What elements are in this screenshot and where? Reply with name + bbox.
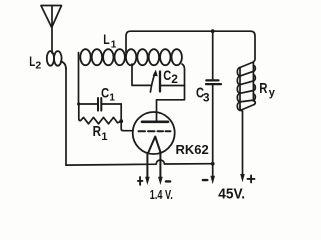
tube plate bar xyxy=(142,121,168,124)
svg-text:45V.: 45V. xyxy=(218,185,245,202)
tube filament xyxy=(147,137,160,181)
antenna xyxy=(41,6,62,54)
svg-text:L: L xyxy=(29,54,35,69)
R1 label xyxy=(93,124,108,143)
node grid junction xyxy=(119,119,123,123)
label + (45V) xyxy=(248,176,255,183)
tube RK62 envelope xyxy=(133,112,175,154)
wire relay bottom to +45 terminal xyxy=(240,107,243,176)
node top bus / C3 xyxy=(211,29,215,33)
relay coil Ry xyxy=(237,62,255,111)
tube grid (dashed) xyxy=(139,130,171,132)
C2 label xyxy=(163,67,178,86)
wire C3 bottom to B- node xyxy=(212,85,214,164)
wire B- terminal xyxy=(212,164,214,177)
svg-text:1: 1 xyxy=(101,131,107,143)
wire L1 left end down to C1 node xyxy=(78,53,80,105)
resistor R1 xyxy=(79,103,121,124)
C3 label xyxy=(196,85,210,105)
filament arrow - xyxy=(158,177,163,185)
svg-text:2: 2 xyxy=(35,59,41,71)
svg-text:y: y xyxy=(269,87,276,99)
node B- junction xyxy=(211,162,215,166)
capacitor C3 xyxy=(206,80,221,84)
svg-text:1.4 V.: 1.4 V. xyxy=(150,188,173,202)
svg-text:1: 1 xyxy=(109,93,115,104)
coil L2 xyxy=(47,51,66,69)
C1 label xyxy=(101,84,115,103)
svg-text:3: 3 xyxy=(203,91,210,105)
svg-text:R: R xyxy=(93,124,102,140)
capacitor C2 variable arrow plate xyxy=(150,73,155,92)
arrow +45 terminal xyxy=(240,174,245,182)
capacitor C1 xyxy=(98,98,101,111)
wire C3 top xyxy=(212,31,214,79)
label - (45V) xyxy=(203,179,207,181)
L1 label xyxy=(103,32,117,51)
node C1/R1 left junction xyxy=(77,102,80,105)
svg-text:L: L xyxy=(103,32,109,47)
capacitor C2 fixed plate xyxy=(159,72,161,92)
wire left rail xyxy=(65,68,67,165)
svg-text:2: 2 xyxy=(171,72,178,86)
wire L1 right end down and to tube plate cap xyxy=(157,64,185,121)
wire C1 right to grid node xyxy=(102,103,122,105)
svg-text:RK62: RK62 xyxy=(176,142,209,157)
filament arrow + xyxy=(145,177,150,185)
wire C1 left xyxy=(79,103,98,105)
label - (filament) xyxy=(166,180,170,182)
wire top bus from L1 tap to relay xyxy=(126,31,255,62)
label + (filament) xyxy=(138,177,143,185)
wire C2 tap from L1 xyxy=(132,64,151,85)
L2 label xyxy=(29,54,41,71)
label 1.4 V. xyxy=(150,188,173,202)
svg-text:R: R xyxy=(259,80,267,97)
coil L1 xyxy=(80,49,182,65)
arrow B- terminal xyxy=(210,176,215,184)
svg-text:C: C xyxy=(163,67,171,83)
wire bottom with hop over filament lead xyxy=(66,160,213,165)
wire grid node to tube xyxy=(121,104,133,131)
svg-text:1: 1 xyxy=(111,40,117,51)
label 45V. xyxy=(218,185,245,202)
Ry label xyxy=(259,80,276,99)
RK62 label xyxy=(176,142,209,157)
wire C2 right to plate branch xyxy=(161,85,184,87)
